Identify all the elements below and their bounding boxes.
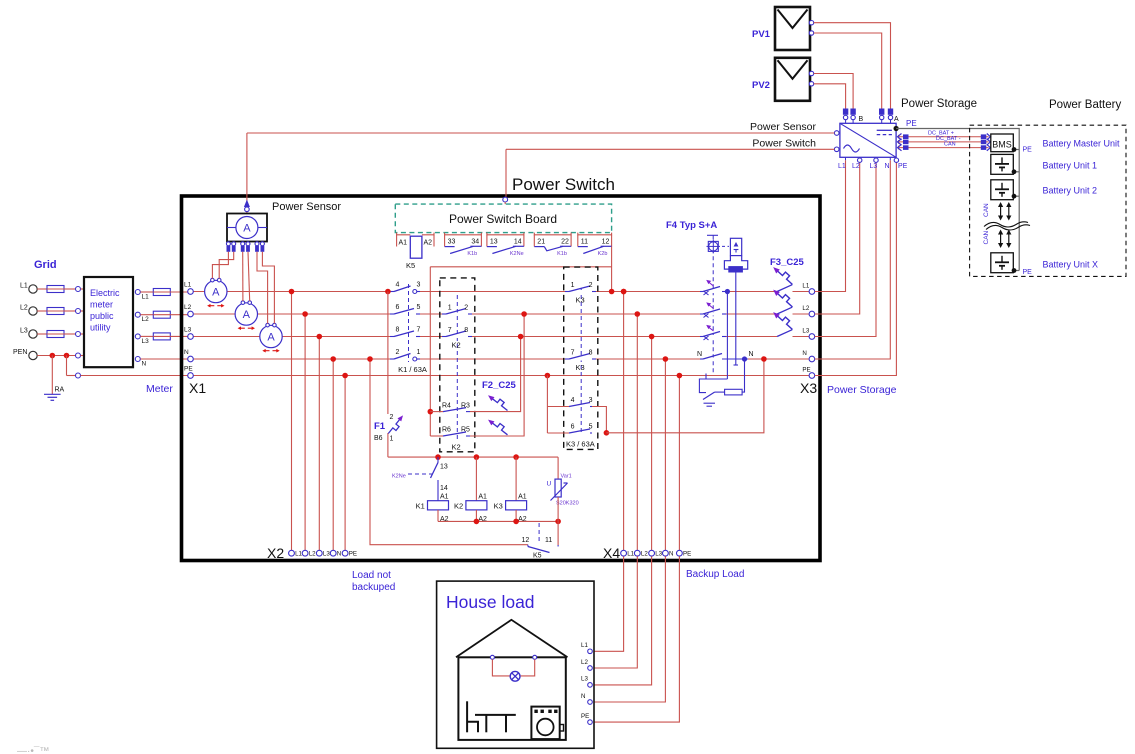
svg-text:K2: K2 [452,443,461,452]
svg-text:2: 2 [390,414,394,421]
svg-text:6: 6 [571,424,575,431]
svg-text:K2Ne: K2Ne [392,474,406,480]
svg-text:4: 4 [571,397,575,404]
svg-text:S20K320: S20K320 [556,501,579,507]
svg-text:L3: L3 [655,550,662,557]
svg-text:12: 12 [522,537,530,544]
svg-text:PEN: PEN [13,349,27,356]
svg-text:PE: PE [1023,269,1033,276]
svg-text:N: N [697,351,702,358]
svg-text:13: 13 [490,239,498,246]
svg-text:L1: L1 [838,163,846,170]
svg-text:L3: L3 [20,328,28,335]
svg-text:5: 5 [417,304,421,311]
svg-text:X3: X3 [800,380,817,396]
svg-text:PE: PE [1023,147,1033,154]
svg-text:11: 11 [545,537,552,544]
svg-text:3: 3 [589,397,593,404]
svg-text:Battery Master Unit: Battery Master Unit [1043,139,1121,149]
svg-text:Power Switch Board: Power Switch Board [449,212,557,226]
svg-text:L2: L2 [802,305,809,312]
svg-text:A1: A1 [440,494,449,501]
svg-text:N: N [669,550,673,557]
svg-text:N: N [802,350,806,357]
svg-text:F2_C25: F2_C25 [482,380,517,391]
svg-text:2: 2 [589,282,593,289]
svg-text:8: 8 [589,350,593,357]
svg-text:utility: utility [90,323,111,333]
svg-text:Meter: Meter [146,383,173,395]
svg-text:B: B [859,116,864,123]
svg-text:L1: L1 [581,642,588,649]
svg-text:U: U [547,481,552,488]
svg-text:1: 1 [448,305,452,312]
svg-text:11: 11 [581,239,588,246]
svg-text:F4 Typ S+A: F4 Typ S+A [666,220,717,231]
svg-text:N: N [184,349,189,356]
svg-text:PE: PE [184,366,193,373]
svg-text:A1: A1 [518,494,527,501]
svg-text:PV2: PV2 [752,80,770,91]
svg-text:N: N [885,163,890,170]
svg-text:Power Storage: Power Storage [901,98,977,110]
svg-text:Power Sensor: Power Sensor [750,121,816,133]
svg-text:—·•¯™: —·•¯™ [17,745,49,754]
svg-text:L2: L2 [20,305,28,312]
svg-text:meter: meter [90,300,113,310]
svg-text:7: 7 [571,350,575,357]
svg-text:Power Storage: Power Storage [827,384,897,396]
svg-text:K1b: K1b [557,251,567,257]
svg-text:2: 2 [396,349,400,356]
svg-text:N: N [749,351,754,358]
svg-text:PE: PE [349,550,357,557]
svg-text:A2: A2 [424,240,433,247]
svg-text:K1: K1 [416,502,425,511]
svg-text:7: 7 [448,327,452,334]
svg-text:8: 8 [464,327,468,334]
svg-text:Battery Unit 2: Battery Unit 2 [1043,186,1098,196]
svg-text:1: 1 [571,282,575,289]
svg-text:K3: K3 [576,296,585,305]
svg-text:Electric: Electric [90,288,120,298]
svg-text:L2: L2 [852,163,860,170]
svg-text:BMS: BMS [992,140,1012,150]
svg-text:Power Switch: Power Switch [752,138,816,150]
svg-text:6: 6 [396,304,400,311]
svg-text:R3: R3 [461,403,470,410]
svg-text:B6: B6 [374,435,383,442]
svg-text:L3: L3 [802,327,809,334]
svg-text:21: 21 [537,239,545,246]
svg-text:A1: A1 [399,240,408,247]
svg-text:L3: L3 [323,550,330,557]
svg-text:L1: L1 [627,550,634,557]
svg-text:K5: K5 [533,553,542,560]
svg-text:A1: A1 [478,494,487,501]
svg-text:R4: R4 [442,403,451,410]
svg-text:A: A [212,287,220,299]
svg-text:L2: L2 [581,659,588,666]
svg-text:L2: L2 [641,550,648,557]
svg-text:X1: X1 [189,380,206,396]
svg-text:Power Battery: Power Battery [1049,99,1121,111]
svg-text:1: 1 [417,349,421,356]
svg-text:34: 34 [471,239,479,246]
svg-text:X2: X2 [267,545,284,561]
svg-text:L1: L1 [184,282,192,289]
svg-text:K2b: K2b [598,251,608,257]
svg-text:Battery Unit 1: Battery Unit 1 [1043,161,1098,171]
svg-text:R5: R5 [461,427,470,434]
svg-text:Var1: Var1 [561,474,572,480]
svg-text:K2: K2 [452,341,461,350]
svg-text:L2: L2 [142,316,150,323]
svg-text:K1b: K1b [467,251,477,257]
svg-text:Power Sensor: Power Sensor [272,201,341,213]
svg-text:33: 33 [448,239,456,246]
svg-text:public: public [90,311,114,321]
svg-text:N: N [337,550,341,557]
svg-text:L3: L3 [870,163,878,170]
svg-text:RA: RA [55,387,65,394]
svg-text:F1: F1 [374,421,386,432]
svg-text:K3 / 63A: K3 / 63A [566,440,595,449]
svg-text:K2: K2 [454,502,463,511]
svg-text:House load: House load [446,592,535,612]
svg-text:5: 5 [589,424,593,431]
svg-text:A: A [894,116,899,123]
svg-text:Power Switch: Power Switch [512,175,615,194]
svg-text:L1: L1 [295,550,302,557]
svg-text:CAN: CAN [983,203,990,217]
svg-text:R6: R6 [442,427,451,434]
svg-text:L2: L2 [309,550,316,557]
svg-text:PE: PE [683,550,691,557]
svg-text:CAN: CAN [944,142,956,148]
svg-text:4: 4 [396,282,400,289]
svg-text:Grid: Grid [34,259,57,271]
svg-text:12: 12 [602,239,610,246]
svg-text:CAN: CAN [983,230,990,244]
svg-text:K5: K5 [406,261,415,270]
svg-text:F3_C25: F3_C25 [770,257,805,268]
svg-text:N: N [142,361,147,368]
svg-text:L1: L1 [20,283,28,290]
svg-text:A: A [243,223,251,235]
svg-text:Load not: Load not [352,570,391,581]
svg-text:8: 8 [396,327,400,334]
svg-text:L3: L3 [581,676,588,683]
svg-text:7: 7 [417,327,421,334]
svg-text:L1: L1 [142,294,150,301]
svg-text:L2: L2 [184,304,192,311]
svg-text:PE: PE [898,163,908,170]
svg-text:L3: L3 [184,327,192,334]
svg-text:K3: K3 [494,502,503,511]
svg-text:X4: X4 [603,545,620,561]
svg-text:2: 2 [464,305,468,312]
svg-text:A: A [243,309,251,321]
svg-text:22: 22 [561,239,569,246]
svg-text:L3: L3 [142,338,150,345]
svg-text:PE: PE [802,366,810,373]
svg-text:K2Ne: K2Ne [510,251,524,257]
svg-text:13: 13 [440,464,448,471]
svg-text:14: 14 [514,239,522,246]
svg-text:A: A [267,332,275,344]
svg-text:PE: PE [581,713,589,720]
svg-text:K3: K3 [576,363,585,372]
svg-text:N: N [581,693,585,700]
svg-text:1: 1 [390,436,394,443]
svg-text:Battery Unit X: Battery Unit X [1043,260,1099,270]
svg-text:backuped: backuped [352,582,395,593]
svg-text:Backup Load: Backup Load [686,569,744,580]
svg-text:14: 14 [440,485,448,492]
svg-text:PV1: PV1 [752,29,771,40]
svg-text:PE: PE [906,119,917,128]
svg-text:L1: L1 [802,282,809,289]
svg-text:K1 / 63A: K1 / 63A [398,365,427,374]
svg-text:3: 3 [417,282,421,289]
